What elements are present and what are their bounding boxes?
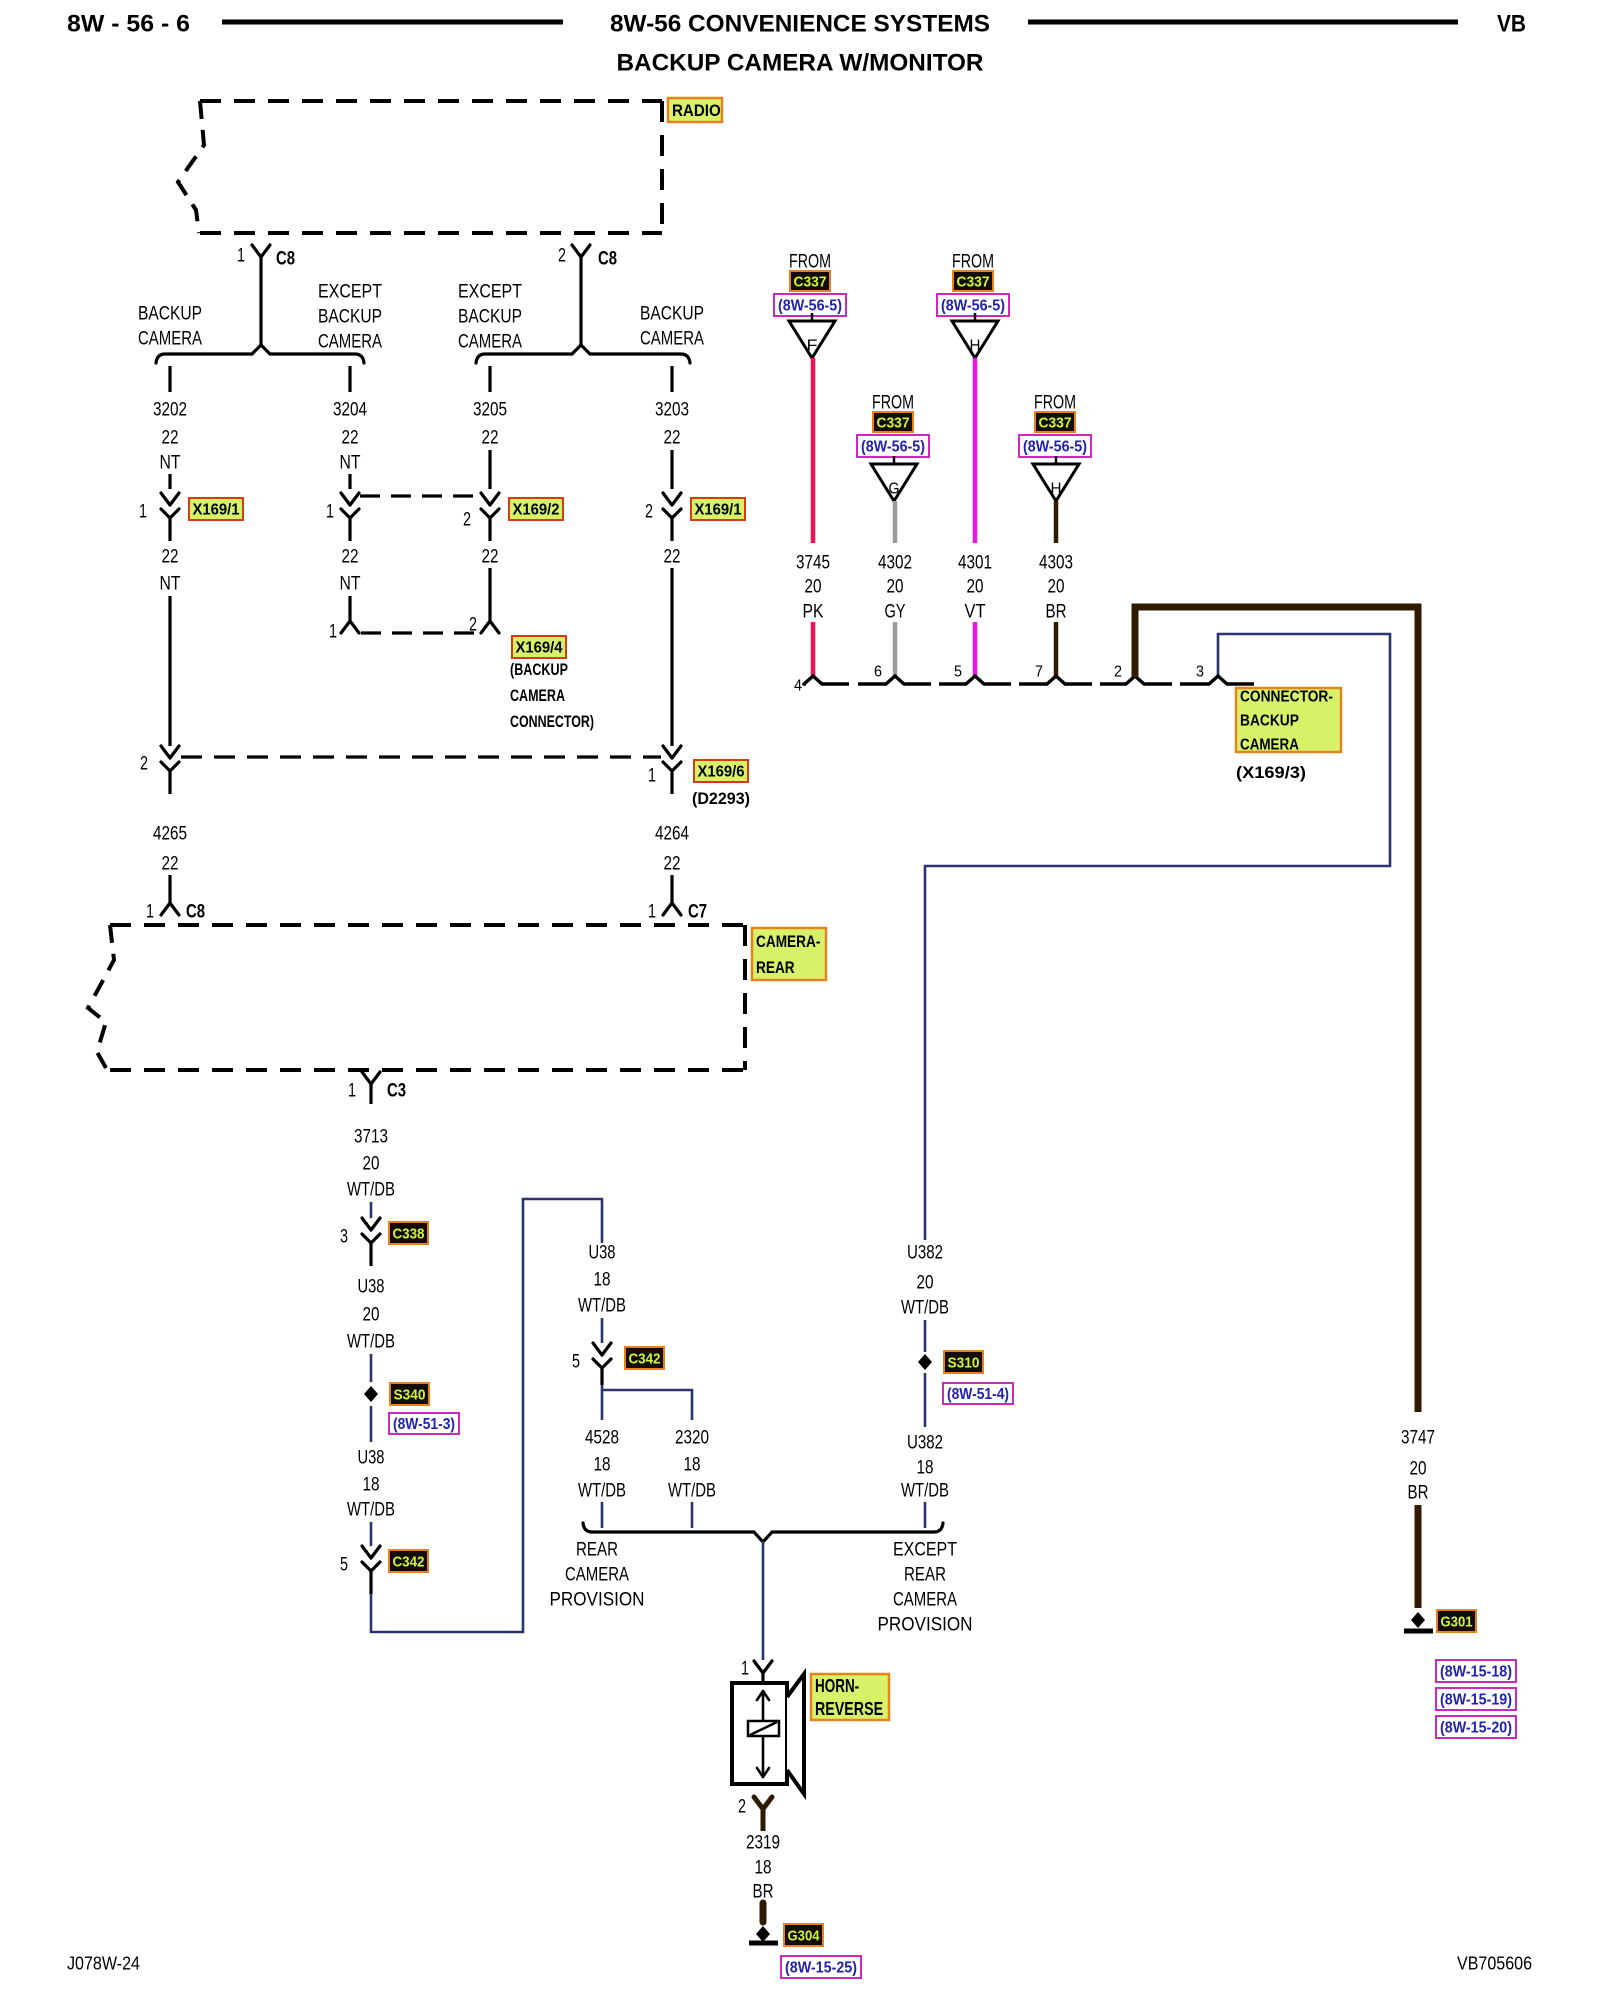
- svg-text:C337: C337: [794, 273, 827, 290]
- svg-text:20: 20: [917, 1273, 934, 1294]
- svg-text:8W-56 CONVENIENCE SYSTEMS: 8W-56 CONVENIENCE SYSTEMS: [610, 11, 990, 38]
- svg-text:C337: C337: [877, 414, 910, 431]
- svg-text:3745: 3745: [796, 553, 830, 574]
- svg-text:2320: 2320: [675, 1428, 709, 1449]
- svg-text:CAMERA: CAMERA: [640, 329, 704, 350]
- svg-text:WT/DB: WT/DB: [901, 1298, 949, 1319]
- svg-text:FROM: FROM: [952, 252, 994, 273]
- svg-text:8W - 56 - 6: 8W - 56 - 6: [67, 11, 190, 38]
- svg-text:4301: 4301: [958, 553, 992, 574]
- svg-text:BR: BR: [1046, 602, 1067, 623]
- svg-text:NT: NT: [340, 453, 361, 474]
- svg-text:REAR: REAR: [756, 958, 795, 977]
- svg-text:22: 22: [482, 547, 499, 568]
- svg-text:WT/DB: WT/DB: [347, 1332, 395, 1353]
- svg-text:1: 1: [741, 1659, 749, 1680]
- svg-text:WT/DB: WT/DB: [347, 1180, 395, 1201]
- svg-text:GY: GY: [885, 602, 906, 623]
- svg-text:EXCEPT: EXCEPT: [458, 282, 522, 303]
- svg-text:22: 22: [664, 854, 681, 875]
- svg-text:G301: G301: [1441, 1613, 1473, 1630]
- svg-text:6: 6: [874, 664, 882, 681]
- svg-text:18: 18: [363, 1475, 380, 1496]
- svg-text:CONNECTOR): CONNECTOR): [510, 713, 594, 731]
- svg-text:X169/2: X169/2: [513, 502, 560, 519]
- svg-text:(8W-15-25): (8W-15-25): [785, 1960, 857, 1977]
- svg-text:(8W-15-19): (8W-15-19): [1440, 1692, 1512, 1709]
- svg-text:5: 5: [572, 1352, 580, 1373]
- svg-text:VB705606: VB705606: [1457, 1953, 1532, 1973]
- svg-text:BR: BR: [1408, 1483, 1429, 1504]
- svg-text:1: 1: [648, 902, 656, 923]
- svg-text:3: 3: [340, 1227, 348, 1248]
- svg-text:(D2293): (D2293): [692, 790, 750, 808]
- svg-text:(BACKUP: (BACKUP: [510, 661, 568, 679]
- svg-text:2319: 2319: [746, 1833, 780, 1854]
- svg-text:H: H: [970, 338, 981, 355]
- svg-text:2: 2: [140, 754, 148, 775]
- svg-text:3713: 3713: [354, 1127, 388, 1148]
- svg-text:C338: C338: [393, 1225, 425, 1242]
- svg-text:C342: C342: [629, 1350, 661, 1367]
- svg-text:BACKUP: BACKUP: [458, 307, 522, 328]
- svg-text:U38: U38: [589, 1243, 616, 1264]
- svg-text:NT: NT: [160, 453, 181, 474]
- svg-text:22: 22: [162, 547, 179, 568]
- svg-text:4: 4: [794, 678, 802, 695]
- svg-text:2: 2: [738, 1797, 746, 1818]
- svg-text:(8W-56-5): (8W-56-5): [778, 298, 842, 315]
- svg-text:C337: C337: [1039, 414, 1072, 431]
- svg-text:2: 2: [558, 246, 566, 267]
- svg-text:3204: 3204: [333, 400, 367, 421]
- svg-text:22: 22: [342, 428, 359, 449]
- svg-text:1: 1: [348, 1081, 356, 1102]
- svg-text:PROVISION: PROVISION: [550, 1590, 645, 1611]
- svg-text:C3: C3: [387, 1081, 406, 1102]
- svg-text:C337: C337: [957, 273, 990, 290]
- svg-text:BACKUP: BACKUP: [318, 307, 382, 328]
- svg-text:18: 18: [594, 1455, 611, 1476]
- svg-text:VB: VB: [1497, 11, 1526, 38]
- svg-text:FROM: FROM: [789, 252, 831, 273]
- svg-text:4264: 4264: [655, 824, 689, 845]
- svg-text:1: 1: [326, 502, 334, 523]
- svg-text:RADIO: RADIO: [672, 101, 721, 120]
- svg-text:F: F: [807, 338, 818, 355]
- svg-text:3202: 3202: [153, 400, 187, 421]
- svg-text:22: 22: [162, 854, 179, 875]
- svg-text:20: 20: [805, 577, 822, 598]
- svg-text:REAR: REAR: [576, 1540, 618, 1561]
- svg-text:3747: 3747: [1401, 1428, 1435, 1449]
- svg-text:4303: 4303: [1039, 553, 1073, 574]
- svg-text:CAMERA: CAMERA: [138, 329, 202, 350]
- svg-text:5: 5: [340, 1555, 348, 1576]
- svg-text:1: 1: [329, 622, 337, 643]
- svg-text:3205: 3205: [473, 400, 507, 421]
- svg-text:BACKUP: BACKUP: [138, 304, 202, 325]
- svg-text:18: 18: [755, 1858, 772, 1879]
- svg-text:1: 1: [237, 246, 245, 267]
- svg-text:(8W-51-3): (8W-51-3): [393, 1416, 455, 1433]
- svg-text:4528: 4528: [585, 1428, 619, 1449]
- svg-text:NT: NT: [160, 574, 181, 595]
- svg-text:REAR: REAR: [904, 1565, 946, 1586]
- svg-text:U382: U382: [907, 1433, 943, 1454]
- svg-text:WT/DB: WT/DB: [578, 1296, 626, 1317]
- svg-text:HORN-: HORN-: [815, 1676, 859, 1696]
- svg-text:J078W-24: J078W-24: [67, 1953, 140, 1973]
- svg-text:(X169/3): (X169/3): [1236, 763, 1306, 782]
- svg-text:S310: S310: [948, 1354, 980, 1371]
- svg-text:(8W-56-5): (8W-56-5): [941, 298, 1005, 315]
- svg-text:2: 2: [1114, 664, 1122, 681]
- svg-text:G304: G304: [788, 1927, 821, 1944]
- svg-text:CONNECTOR-: CONNECTOR-: [1240, 689, 1333, 706]
- svg-text:3203: 3203: [655, 400, 689, 421]
- svg-text:CAMERA: CAMERA: [458, 332, 522, 353]
- svg-text:7: 7: [1035, 664, 1043, 681]
- svg-text:22: 22: [162, 428, 179, 449]
- svg-text:2: 2: [645, 502, 653, 523]
- svg-text:G: G: [889, 481, 900, 498]
- svg-text:CAMERA: CAMERA: [318, 332, 382, 353]
- svg-text:BACKUP: BACKUP: [1240, 713, 1299, 730]
- svg-text:REVERSE: REVERSE: [815, 1699, 883, 1719]
- svg-text:CAMERA: CAMERA: [893, 1590, 957, 1611]
- svg-text:WT/DB: WT/DB: [901, 1481, 949, 1502]
- svg-text:WT/DB: WT/DB: [578, 1481, 626, 1502]
- svg-text:PK: PK: [803, 602, 824, 623]
- svg-text:3: 3: [1196, 664, 1204, 681]
- svg-text:22: 22: [482, 428, 499, 449]
- svg-text:(8W-56-5): (8W-56-5): [1023, 439, 1087, 456]
- svg-text:EXCEPT: EXCEPT: [318, 282, 382, 303]
- svg-text:1: 1: [648, 766, 656, 787]
- svg-text:CAMERA: CAMERA: [1240, 737, 1299, 754]
- svg-text:X169/1: X169/1: [193, 502, 240, 519]
- svg-text:WT/DB: WT/DB: [668, 1481, 716, 1502]
- svg-text:C7: C7: [688, 902, 707, 923]
- svg-text:4265: 4265: [153, 824, 187, 845]
- svg-text:U38: U38: [358, 1448, 385, 1469]
- svg-text:X169/6: X169/6: [698, 764, 745, 781]
- svg-text:20: 20: [967, 577, 984, 598]
- svg-text:5: 5: [954, 664, 962, 681]
- svg-text:20: 20: [887, 577, 904, 598]
- svg-text:20: 20: [363, 1154, 380, 1175]
- svg-text:CAMERA: CAMERA: [565, 1565, 629, 1586]
- svg-text:U382: U382: [907, 1243, 943, 1264]
- svg-text:C342: C342: [393, 1553, 425, 1570]
- svg-text:U38: U38: [358, 1277, 385, 1298]
- svg-text:(8W-56-5): (8W-56-5): [861, 439, 925, 456]
- svg-text:22: 22: [664, 547, 681, 568]
- svg-text:20: 20: [1048, 577, 1065, 598]
- svg-text:(8W-51-4): (8W-51-4): [947, 1386, 1009, 1403]
- svg-text:FROM: FROM: [1034, 393, 1076, 414]
- svg-text:22: 22: [342, 547, 359, 568]
- svg-text:CAMERA-: CAMERA-: [756, 932, 820, 951]
- svg-text:(8W-15-20): (8W-15-20): [1440, 1720, 1512, 1737]
- svg-text:BACKUP CAMERA W/MONITOR: BACKUP CAMERA W/MONITOR: [617, 50, 984, 77]
- svg-text:C8: C8: [276, 249, 295, 270]
- svg-text:4302: 4302: [878, 553, 912, 574]
- svg-text:CAMERA: CAMERA: [510, 687, 565, 705]
- svg-text:FROM: FROM: [872, 393, 914, 414]
- svg-text:18: 18: [684, 1455, 701, 1476]
- svg-text:H: H: [1051, 481, 1062, 498]
- svg-text:PROVISION: PROVISION: [878, 1615, 973, 1636]
- svg-text:C8: C8: [186, 902, 205, 923]
- svg-text:VT: VT: [965, 602, 986, 623]
- svg-text:20: 20: [363, 1305, 380, 1326]
- svg-text:NT: NT: [340, 574, 361, 595]
- svg-text:22: 22: [664, 428, 681, 449]
- svg-text:18: 18: [594, 1270, 611, 1291]
- svg-text:20: 20: [1410, 1459, 1427, 1480]
- svg-text:X169/4: X169/4: [516, 640, 563, 657]
- svg-text:BACKUP: BACKUP: [640, 304, 704, 325]
- svg-text:18: 18: [917, 1458, 934, 1479]
- svg-text:2: 2: [463, 510, 471, 531]
- svg-text:S340: S340: [394, 1386, 426, 1403]
- svg-text:X169/1: X169/1: [695, 502, 742, 519]
- svg-text:(8W-15-18): (8W-15-18): [1440, 1664, 1512, 1681]
- svg-text:WT/DB: WT/DB: [347, 1500, 395, 1521]
- svg-text:1: 1: [146, 902, 154, 923]
- svg-text:1: 1: [139, 502, 147, 523]
- svg-text:C8: C8: [598, 249, 617, 270]
- svg-text:EXCEPT: EXCEPT: [893, 1540, 957, 1561]
